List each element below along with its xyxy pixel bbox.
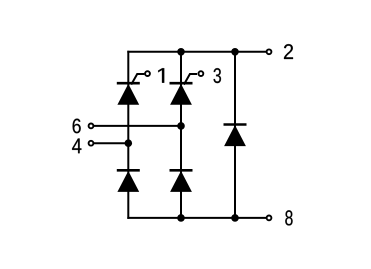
wire top bus <box>127 51 266 53</box>
junction node 6 on middle branch <box>177 122 185 130</box>
label 2 <box>284 44 293 59</box>
thyristor T1 <box>117 71 150 105</box>
label 8 <box>285 210 292 225</box>
label pin 3 <box>214 68 222 83</box>
wire right branch <box>234 52 236 218</box>
label 4 <box>72 138 81 153</box>
label pin 1 <box>158 68 164 83</box>
thyristor T2 <box>170 71 204 105</box>
diode D1 bottom left <box>117 170 140 192</box>
junction bottom middle <box>177 214 185 222</box>
wire terminal 4 to left branch <box>94 142 129 144</box>
junction bottom right <box>231 214 239 222</box>
diode D3 right <box>224 125 247 147</box>
junction top right <box>231 48 239 56</box>
wire middle branch <box>180 52 182 218</box>
terminal 8 <box>267 216 272 221</box>
wire left branch <box>127 51 129 219</box>
terminal 2 <box>267 49 272 54</box>
label 6 <box>73 119 81 134</box>
junction node 4 on left branch <box>125 139 133 147</box>
terminal 6 <box>89 124 94 129</box>
junction top middle <box>177 48 185 56</box>
wire bottom bus <box>127 217 266 219</box>
diode D2 bottom middle <box>170 170 193 192</box>
wire terminal 6 to middle branch <box>94 125 181 127</box>
terminal 4 <box>89 141 94 146</box>
